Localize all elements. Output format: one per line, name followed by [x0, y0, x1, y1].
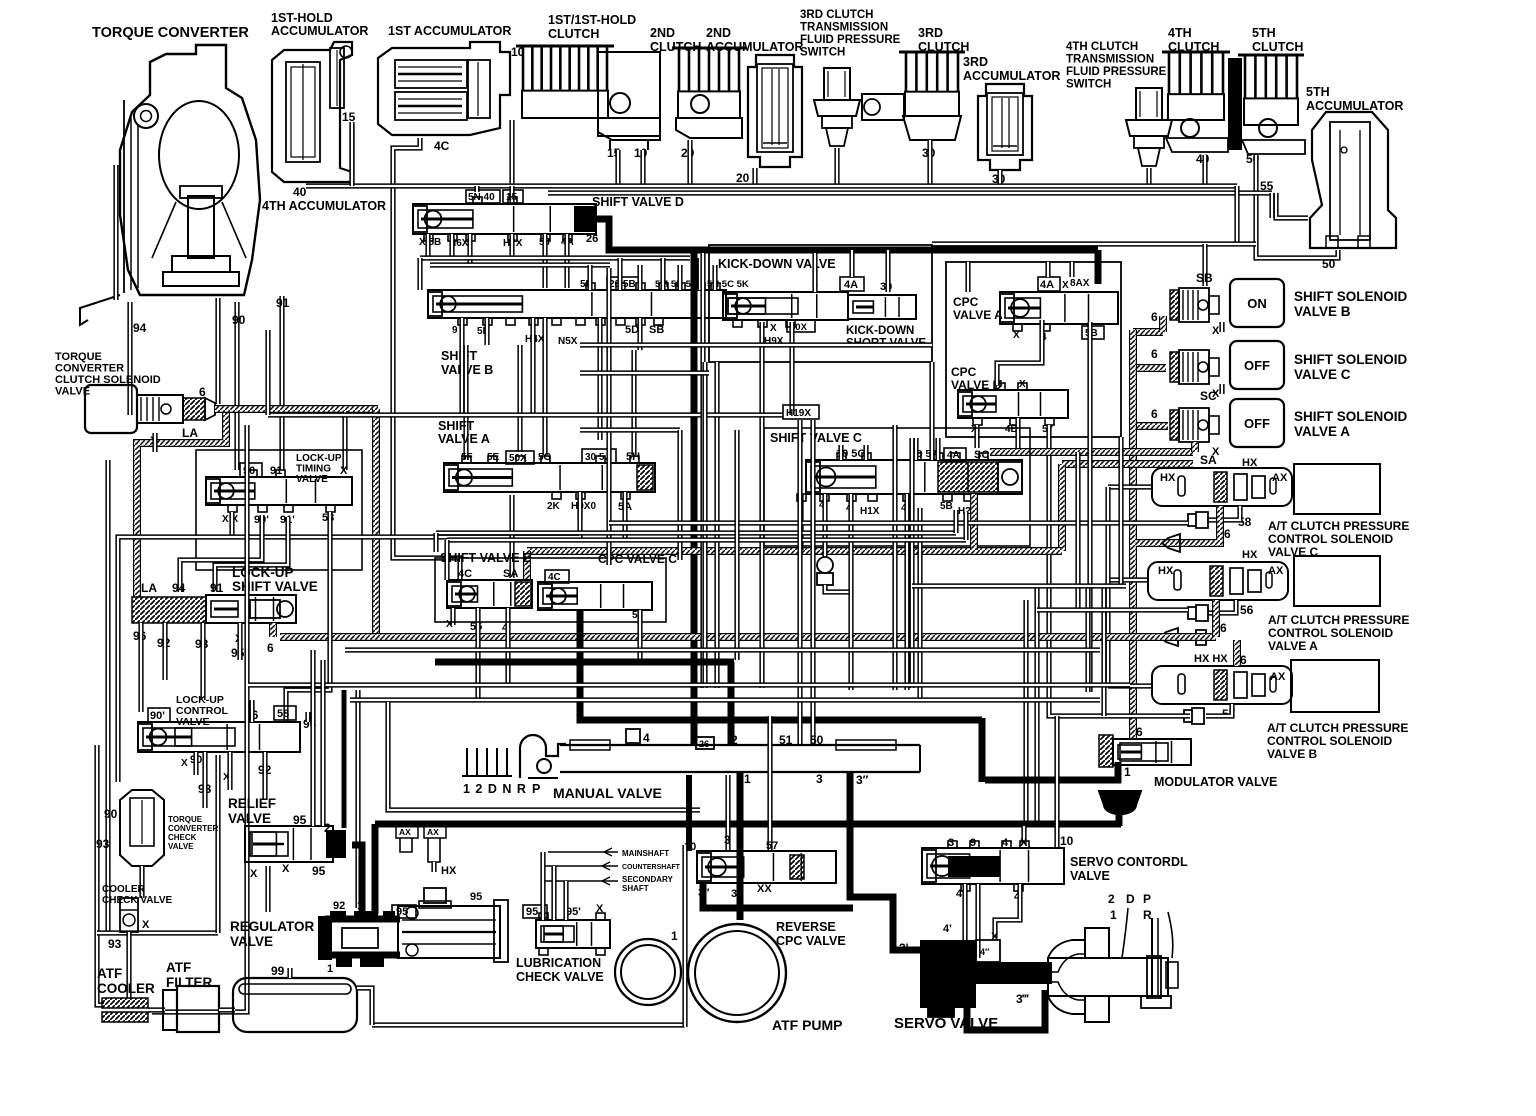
svg-text:5E: 5E [487, 452, 500, 463]
1st/1st-hold clutch [516, 13, 660, 150]
svg-text:AX: AX [399, 827, 411, 837]
svg-text:SHIFT SOLENOID: SHIFT SOLENOID [1294, 352, 1408, 367]
wire [798, 494, 803, 550]
svg-text:SHIFT SOLENOID: SHIFT SOLENOID [1294, 409, 1408, 424]
svg-text:4: 4 [1002, 837, 1009, 849]
ATF filter [163, 960, 219, 1032]
svg-text:3‴: 3‴ [1016, 992, 1030, 1006]
ATF cooler [97, 966, 155, 1022]
svg-text:6: 6 [1240, 653, 1247, 667]
svg-text:AX: AX [1272, 472, 1288, 484]
wire [637, 318, 642, 350]
svg-text:VALVE: VALVE [296, 474, 328, 485]
wire [759, 322, 764, 688]
svg-text:6: 6 [1224, 527, 1231, 541]
svg-text:8AX: 8AX [1070, 278, 1090, 289]
wire [219, 1007, 235, 1012]
wire [1069, 262, 1074, 277]
svg-text:FLUID PRESSURE: FLUID PRESSURE [1066, 66, 1167, 78]
lock-up shift valve [132, 565, 318, 660]
wire thick CPC drop [1095, 250, 1102, 284]
svg-text:6: 6 [1136, 725, 1143, 739]
svg-text:VALVE: VALVE [1070, 869, 1110, 883]
a/t clutch pressure control solenoid valve C [1152, 457, 1409, 559]
svg-text:SHIFT SOLENOID: SHIFT SOLENOID [1294, 289, 1408, 304]
svg-text:X: X [1013, 330, 1020, 341]
svg-text:4″: 4″ [980, 947, 990, 957]
wire [700, 253, 705, 688]
wire [459, 318, 464, 415]
modulator valve [1099, 725, 1277, 814]
wire [444, 540, 449, 580]
wire [342, 411, 347, 470]
svg-text:2ND: 2ND [706, 26, 731, 40]
svg-text:VALVE A: VALVE A [1268, 639, 1318, 653]
wire [126, 932, 131, 998]
svg-text:4A: 4A [844, 279, 858, 291]
svg-text:51: 51 [779, 733, 793, 747]
svg-text:FLUID PRESSURE: FLUID PRESSURE [800, 34, 901, 46]
svg-text:26: 26 [699, 739, 709, 749]
wire main bus [306, 183, 1237, 188]
svg-text:90': 90' [150, 710, 165, 722]
wire [127, 302, 132, 415]
lock-up timing valve [206, 453, 352, 526]
servo control valve [922, 837, 1188, 903]
wire [927, 140, 932, 186]
port AX stub 2 [424, 826, 446, 838]
svg-text:CONTROL SOLENOID: CONTROL SOLENOID [1268, 532, 1393, 546]
wire [180, 515, 262, 592]
svg-text:SC: SC [974, 449, 989, 461]
regulator valve [230, 888, 508, 975]
svg-text:94: 94 [172, 581, 186, 595]
svg-text:ACCUMULATOR: ACCUMULATOR [963, 69, 1060, 83]
svg-text:90: 90 [104, 807, 118, 821]
svg-text:3″: 3″ [856, 773, 869, 787]
svg-text:TIMING: TIMING [296, 464, 331, 475]
svg-text:ATF PUMP: ATF PUMP [772, 1017, 843, 1033]
wire hatched y550 [527, 547, 1062, 555]
torque converter clutch solenoid valve [55, 351, 215, 447]
wire [162, 623, 167, 680]
wire [484, 318, 489, 345]
wire [797, 420, 802, 745]
svg-text:99: 99 [271, 964, 285, 978]
svg-text:6: 6 [1151, 407, 1158, 421]
wire [1202, 155, 1207, 186]
wire [997, 170, 1002, 186]
svg-text:CPC VALVE: CPC VALVE [776, 934, 846, 948]
svg-text:ON: ON [1247, 296, 1267, 311]
3rd accumulator [963, 55, 1060, 170]
wire [580, 427, 680, 432]
wire [1101, 586, 1106, 716]
svg-text:TRANSMISSION: TRANSMISSION [800, 22, 888, 34]
svg-text:6: 6 [1151, 310, 1158, 324]
wire [349, 125, 354, 186]
wire [965, 262, 970, 292]
svg-text:1: 1 [671, 929, 678, 943]
wire [542, 234, 547, 288]
kick-down valve assembly box [709, 245, 932, 362]
wire [822, 494, 827, 557]
wire [1269, 193, 1274, 218]
wire [215, 298, 220, 404]
wire [962, 884, 967, 945]
svg-text:1: 1 [1110, 908, 1117, 922]
wire [215, 517, 288, 592]
2nd clutch [650, 26, 746, 138]
wire [564, 234, 569, 288]
wire [475, 608, 480, 700]
wire [425, 234, 430, 258]
svg-text:OFF: OFF [1244, 358, 1270, 373]
wire [849, 250, 854, 277]
wire [563, 881, 568, 920]
wire 58 [286, 512, 330, 722]
wire [631, 350, 636, 455]
wire 4B stub [1015, 418, 1020, 448]
svg-text:3RD: 3RD [918, 26, 943, 40]
wire hatched LA drop [137, 413, 226, 597]
svg-text:X: X [250, 868, 258, 880]
wire [677, 265, 682, 290]
cpc valve C [538, 552, 677, 621]
oil pan strainer [233, 964, 357, 1032]
svg-text:3: 3 [816, 772, 823, 786]
wire [810, 420, 815, 745]
svg-text:5H: 5H [626, 451, 640, 463]
wire [420, 255, 690, 260]
wire [530, 318, 535, 415]
svg-text:1 2 D N R: 1 2 D N R [463, 782, 527, 796]
svg-text:5D: 5D [625, 324, 639, 336]
svg-text:SC: SC [1200, 389, 1217, 403]
lock-up timing valve box [196, 450, 362, 570]
wire [505, 608, 510, 685]
wire [640, 150, 645, 186]
wire [542, 318, 547, 455]
wire thick 10 drop [686, 775, 692, 851]
wire [712, 265, 717, 290]
svg-text:MANUAL VALVE: MANUAL VALVE [553, 785, 662, 801]
wire hatched bus y637 [280, 633, 1216, 641]
svg-text:AX: AX [1270, 671, 1286, 683]
wire thick relief [352, 845, 362, 912]
svg-text:6: 6 [1151, 347, 1158, 361]
4th clutch transmission fluid pressure switch [1066, 41, 1172, 166]
wire hatched SC line [990, 448, 1193, 456]
wire hatched valve E riser [523, 551, 531, 580]
svg-text:VALVE: VALVE [230, 934, 273, 949]
relief valve [228, 796, 346, 880]
cpc valve A [953, 277, 1118, 343]
wire [265, 330, 270, 415]
wire [848, 494, 853, 690]
port AX stub [396, 826, 418, 838]
svg-text:58: 58 [277, 708, 289, 720]
svg-text:N5X: N5X [558, 336, 578, 347]
wire [682, 845, 687, 1027]
svg-text:9: 9 [452, 325, 458, 336]
svg-text:CHECK: CHECK [168, 833, 197, 842]
wire [697, 258, 702, 290]
wire [1075, 452, 1080, 610]
wire bus y700 [350, 697, 1100, 702]
mainshaft feed [548, 848, 669, 858]
svg-text:HX: HX [1160, 472, 1176, 484]
wire [517, 345, 522, 452]
svg-text:1ST/1ST-HOLD: 1ST/1ST-HOLD [548, 13, 636, 27]
svg-text:RELIEF: RELIEF [228, 796, 276, 811]
wire [237, 623, 242, 660]
wire [912, 583, 1126, 588]
wire [929, 362, 934, 460]
wire [357, 988, 372, 1025]
svg-text:6: 6 [1220, 621, 1227, 635]
svg-text:CLUTCH: CLUTCH [1252, 40, 1303, 54]
wire 6 hatched main bus [215, 405, 378, 413]
wire y533 [436, 530, 956, 535]
wire [234, 302, 239, 470]
svg-text:91: 91 [276, 296, 290, 310]
1st-hold accumulator [271, 11, 368, 182]
svg-text:X: X [1062, 280, 1069, 291]
svg-text:3RD CLUTCH: 3RD CLUTCH [800, 9, 873, 21]
wire [892, 425, 897, 690]
svg-text:2ND: 2ND [650, 26, 675, 40]
wire servo X stub [1021, 826, 1026, 845]
svg-text:56: 56 [1240, 603, 1254, 617]
svg-text:A/T CLUTCH PRESSURE: A/T CLUTCH PRESSURE [1267, 721, 1408, 735]
wire [834, 148, 839, 186]
wire [474, 186, 479, 192]
svg-text:X: X [770, 323, 777, 334]
svg-text:COOLER: COOLER [102, 884, 146, 895]
wire [430, 262, 610, 267]
wire [320, 660, 325, 826]
wire 5B drop [1087, 322, 1092, 692]
2nd accumulator [706, 26, 803, 167]
wire [725, 775, 730, 851]
wire [148, 1007, 165, 1012]
svg-text:4A: 4A [1040, 279, 1054, 291]
wire long y537 [118, 492, 580, 782]
wire 6 hatched from solenoid C [1136, 506, 1220, 543]
wire y540 [447, 537, 966, 542]
svg-text:4': 4' [943, 923, 952, 935]
svg-text:H19X: H19X [786, 408, 811, 419]
wire hatched x1062 riser [1058, 464, 1066, 551]
wire thick regulator drop [372, 824, 379, 914]
wire [637, 610, 642, 660]
wire [963, 512, 968, 540]
svg-text:VALVE A: VALVE A [438, 432, 490, 446]
svg-text:FILTER: FILTER [166, 975, 212, 990]
svg-text:57: 57 [766, 840, 778, 852]
svg-text:X: X [1019, 379, 1026, 390]
svg-text:1: 1 [327, 963, 333, 975]
svg-text:COOLER: COOLER [97, 981, 155, 996]
svg-text:TRANSMISSION: TRANSMISSION [1066, 54, 1154, 66]
wire [995, 884, 1020, 938]
wire [229, 512, 234, 537]
wire hatched y464 [1062, 460, 1193, 468]
wire thick 2 drop [728, 662, 735, 745]
svg-text:SECONDARY: SECONDARY [622, 875, 673, 884]
svg-text:93: 93 [108, 937, 122, 951]
svg-text:5F: 5F [461, 452, 473, 463]
svg-text:LUBRICATION: LUBRICATION [516, 956, 601, 970]
shift solenoid valve C [1151, 341, 1408, 403]
wire check valve box left [97, 745, 104, 1005]
wire X stub [152, 433, 157, 452]
svg-text:4C: 4C [458, 568, 472, 580]
wire 26 thick vertical [691, 250, 698, 745]
svg-text:1ST ACCUMULATOR: 1ST ACCUMULATOR [388, 24, 511, 38]
wire hatched SA riser [1191, 442, 1199, 452]
svg-text:VALVE: VALVE [228, 811, 271, 826]
wire [540, 852, 545, 920]
wire [577, 492, 582, 520]
wire 57 [1206, 704, 1232, 716]
servo valve [894, 940, 1052, 1032]
wire [677, 430, 682, 560]
wire [687, 140, 692, 186]
wire check valve box right [215, 755, 220, 933]
1st accumulator [378, 24, 511, 135]
svg-text:A/T CLUTCH PRESSURE: A/T CLUTCH PRESSURE [1268, 519, 1409, 533]
reverse CPC valve [684, 833, 846, 948]
svg-text:95: 95 [470, 891, 482, 903]
svg-text:CPC: CPC [953, 295, 979, 309]
svg-text:CONTROL SOLENOID: CONTROL SOLENOID [1267, 734, 1392, 748]
wire [637, 265, 642, 290]
svg-text:SB: SB [649, 324, 664, 336]
wire 56 lateral [1037, 607, 1188, 612]
svg-text:LOCK-UP: LOCK-UP [232, 565, 294, 580]
svg-text:X: X [1212, 325, 1220, 337]
shift valve B [428, 277, 749, 377]
wire [597, 318, 602, 440]
svg-text:CHECK VALVE: CHECK VALVE [516, 970, 604, 984]
wire [838, 445, 843, 460]
wire [953, 510, 958, 533]
svg-text:VALVE A: VALVE A [1294, 424, 1350, 439]
svg-text:X: X [1020, 837, 1028, 849]
wire manual valve frame [388, 702, 700, 810]
svg-text:5G: 5G [538, 452, 552, 463]
wire thick servo feed drop [979, 718, 986, 782]
wire thick bus y662 [435, 659, 734, 666]
svg-text:CONVERTER: CONVERTER [168, 824, 218, 833]
wire [1085, 586, 1090, 692]
countershaft feed [545, 862, 681, 871]
svg-text:3': 3' [899, 941, 909, 955]
wire [913, 438, 918, 460]
cpc valves box [946, 262, 1121, 437]
svg-text:95: 95 [396, 906, 408, 918]
wire [200, 623, 205, 700]
svg-text:ACCUMULATOR: ACCUMULATOR [271, 24, 368, 38]
shift valve A [438, 419, 655, 513]
svg-text:R: R [1143, 908, 1152, 922]
check ball [817, 557, 833, 573]
wire [714, 362, 719, 688]
wire [587, 265, 592, 290]
wire [139, 866, 144, 898]
svg-text:TORQUE: TORQUE [55, 351, 102, 363]
svg-text:X: X [181, 758, 188, 769]
5th clutch [1228, 26, 1305, 154]
wire [975, 884, 980, 958]
svg-text:2 D: 2 D [1108, 892, 1139, 906]
wire 55 [1276, 193, 1308, 218]
wire [812, 253, 817, 292]
wire [917, 508, 922, 700]
svg-text:LA: LA [182, 426, 198, 440]
shift solenoid valve B [1151, 271, 1408, 337]
svg-text:94: 94 [133, 321, 147, 335]
svg-text:LOCK-UP: LOCK-UP [296, 453, 342, 464]
svg-text:30 5J: 30 5J [585, 452, 610, 463]
lubrication check valve [516, 903, 610, 984]
wire bus y650 [345, 647, 1100, 652]
wire [305, 712, 310, 722]
svg-text:50: 50 [810, 733, 824, 747]
wire [885, 250, 890, 292]
wire [265, 866, 270, 912]
a/t clutch pressure control solenoid valve B [1152, 653, 1408, 761]
svg-text:9: 9 [970, 837, 976, 849]
svg-text:4C: 4C [548, 572, 561, 583]
wire [509, 234, 514, 258]
wire H19X [268, 412, 783, 417]
wire [1146, 168, 1151, 186]
wire [227, 752, 232, 790]
svg-text:50: 50 [1322, 257, 1336, 271]
svg-text:X: X [142, 919, 150, 931]
shift valve D [413, 190, 684, 249]
svg-text:4C: 4C [434, 139, 450, 153]
wire [1202, 244, 1207, 286]
svg-text:OFF: OFF [1244, 416, 1270, 431]
wire [580, 342, 932, 347]
5th accumulator [1306, 85, 1403, 248]
cpc valve B [951, 365, 1068, 435]
svg-text:CLUTCH: CLUTCH [548, 27, 599, 41]
svg-text:4TH CLUTCH: 4TH CLUTCH [1066, 41, 1138, 53]
svg-text:H1X: H1X [860, 506, 880, 517]
svg-text:MAINSHAFT: MAINSHAFT [622, 849, 669, 858]
svg-text:VALVE B: VALVE B [1294, 304, 1351, 319]
wire [262, 752, 267, 800]
svg-text:COUNTERSHAFT: COUNTERSHAFT [622, 864, 681, 871]
shift valve C [770, 431, 1022, 517]
svg-text:VALVE: VALVE [168, 842, 194, 851]
cooler check valve [102, 884, 173, 951]
shift valve C box [764, 428, 1030, 546]
wire bus 2 [548, 190, 1272, 195]
wire [1023, 600, 1028, 824]
3rd clutch transmission fluid pressure switch [800, 9, 901, 146]
svg-text:SA: SA [503, 568, 518, 580]
wire y523 [609, 520, 1188, 525]
svg-text:90: 90 [232, 313, 246, 327]
svg-text:95: 95 [293, 813, 307, 827]
svg-text:SHIFT: SHIFT [441, 349, 477, 363]
